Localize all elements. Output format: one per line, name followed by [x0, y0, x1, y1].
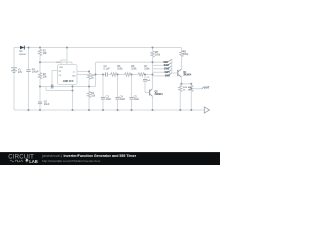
svg-text:10uF: 10uF — [134, 98, 140, 101]
svg-text:10uF: 10uF — [120, 98, 126, 101]
svg-text:100k: 100k — [144, 67, 150, 70]
svg-text:12V: 12V — [18, 71, 23, 74]
svg-text:100uF: 100uF — [32, 71, 39, 74]
svg-text:1uF: 1uF — [147, 80, 151, 82]
svg-text:0.1uF: 0.1uF — [104, 67, 111, 70]
svg-text:Inverter/Function Generator an: Inverter/Function Generator and 555 Time… — [64, 154, 137, 158]
svg-text:100k: 100k — [131, 67, 137, 70]
svg-text:2N3904: 2N3904 — [155, 93, 164, 96]
svg-text:|: | — [61, 154, 62, 158]
svg-text:100k: 100k — [155, 54, 161, 57]
svg-text:http://circuitlab.com/c/7h24tm: http://circuitlab.com/c/7h24tm/inverter-… — [42, 159, 101, 163]
svg-text:GND VCC: GND VCC — [63, 81, 74, 83]
svg-text:100k: 100k — [183, 53, 189, 56]
svg-text:LAB: LAB — [29, 159, 38, 164]
svg-text:1N4007: 1N4007 — [19, 54, 27, 56]
svg-text:10uF: 10uF — [106, 98, 112, 101]
svg-text:SW5: SW5 — [165, 74, 171, 77]
svg-text:10uF: 10uF — [44, 103, 50, 106]
svg-text:100k: 100k — [117, 67, 123, 70]
svg-text:jamesbrown1: jamesbrown1 — [41, 154, 62, 158]
svg-text:2N3904: 2N3904 — [183, 74, 192, 77]
svg-text:OUT: OUT — [204, 85, 210, 89]
